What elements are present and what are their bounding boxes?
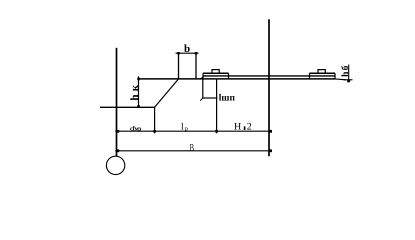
svg-text:2: 2 [247,122,252,133]
ground line right sloping end [335,78,346,81]
svg-text:р: р [185,126,188,133]
lower dimension line B [115,150,269,152]
left axis vertical line [116,48,118,156]
lower bench horizontal line [100,106,155,108]
oblique tick at hb base [347,79,350,82]
dimension dot at left end of B [116,149,119,152]
left rail plate left edge [202,73,204,79]
right axis vertical line [268,19,270,156]
svg-text:l: l [181,122,184,132]
dimension dot at right end of B [269,149,272,152]
svg-text:lшп: lшп [219,94,236,104]
svg-text:сfмз: сfмз [130,126,142,133]
slope line from pedestal to lower bench [155,79,179,107]
left rail plate top [203,72,229,74]
svg-text:H: H [234,122,241,133]
dimension tick bottom of hb [344,79,353,81]
left rail plate right edge [228,73,230,79]
right rail plate top [310,72,336,74]
right rail plate right edge [334,73,336,79]
pedestal right edge [195,53,197,79]
tick at sleeper box corner [200,98,203,101]
svg-text:B: B [190,143,194,154]
right rail head [318,70,325,74]
dimension dot at slope foot [153,130,156,133]
slope foot extension line [154,107,156,133]
dimension dot at left end [116,130,119,133]
sleeper box bottom [203,97,218,99]
upper rail plane line [204,75,336,77]
dimension dot right of b [195,52,198,55]
rail centre extension line [216,79,218,133]
svg-text:b: b [184,43,190,55]
pedestal left edge [178,53,180,79]
dimension dot at right end [269,130,272,133]
svg-text:hк: hк [129,82,141,101]
chamfer at left end of upper line [201,76,204,79]
right rail plate left edge [309,73,311,79]
dimension line hk [138,76,140,107]
pedestal top / dimension line b [176,52,199,54]
left rail head [212,70,219,74]
upper dimension chain line [115,130,269,132]
dimension line hb vertical [348,65,350,81]
slash mark of H/2 [244,126,246,130]
dimension dot top of hk [137,78,140,81]
dimension dot at rail centre [215,130,218,133]
sleeper box left edge [202,79,204,98]
ground / lower rail plane line [138,78,335,80]
svg-text:hб: hб [341,64,351,76]
dimension dot bottom of hk [137,105,140,108]
circle marker at bottom of left axis [106,156,124,174]
dimension dot left of b [177,52,180,55]
